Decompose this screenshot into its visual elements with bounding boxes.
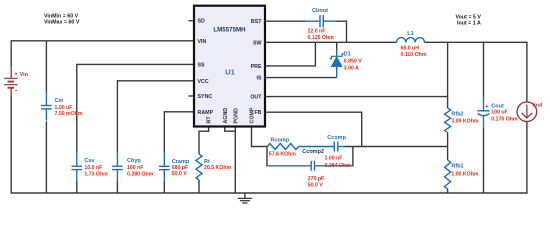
svg-text:VinMax = 60 V: VinMax = 60 V [44, 20, 80, 26]
svg-text:+: + [14, 72, 18, 78]
wire Rt bottom [198, 180, 200, 193]
svg-text:50.0 V: 50.0 V [308, 182, 324, 188]
value L1 [401, 46, 427, 58]
wire AGND pin path [224, 127, 236, 132]
svg-text:270 pF: 270 pF [308, 176, 324, 182]
text Vout/Iout annotation [456, 14, 482, 26]
svg-text:57.6 KOhm: 57.6 KOhm [269, 152, 296, 158]
value Rfb2 [451, 118, 478, 124]
label Ccomp2 [302, 149, 324, 155]
svg-text:RT: RT [207, 116, 213, 124]
wire SYNC stub [189, 95, 195, 97]
label Cramp [172, 159, 190, 165]
label Iout [533, 103, 543, 109]
wire COMP row left [251, 146, 267, 148]
text U1 part number [213, 27, 246, 34]
svg-text:COMP: COMP [250, 107, 256, 123]
wire output rail [425, 41, 528, 43]
svg-text:7.50 mOhm: 7.50 mOhm [55, 111, 83, 117]
op-amp U1 LM5575MH body [194, 6, 265, 127]
value Ccomp [325, 156, 352, 169]
svg-text:3.00 A: 3.00 A [344, 66, 359, 72]
wire battery column top [10, 40, 12, 66]
capacitor Cramp [159, 152, 170, 181]
svg-text:SYNC: SYNC [198, 94, 213, 100]
value Rt [204, 165, 231, 171]
label Vin with polarity [14, 72, 28, 95]
svg-text:100 uF: 100 uF [491, 110, 507, 116]
wire Rfb mid [447, 133, 449, 160]
svg-text:0.125 Ohm: 0.125 Ohm [308, 35, 335, 41]
capacitor Cbyp [112, 152, 123, 181]
wire Cin column [45, 41, 47, 193]
svg-text:IS: IS [256, 76, 261, 82]
svg-text:Ccomp: Ccomp [327, 135, 346, 141]
svg-text:50.0 V: 50.0 V [172, 171, 188, 177]
svg-text:1.00 nF: 1.00 nF [325, 156, 343, 162]
wire Cout column [483, 42, 485, 193]
svg-text:Rfb2: Rfb2 [451, 111, 463, 117]
svg-text:Vout = 5 V: Vout = 5 V [456, 14, 482, 20]
label Rcomp [271, 137, 290, 143]
wire Ccomp2 row [266, 165, 353, 167]
ground symbol [238, 193, 252, 203]
svg-text:Iout: Iout [533, 103, 543, 109]
svg-text:PRE: PRE [251, 64, 262, 70]
wire IS row [265, 77, 337, 79]
svg-text:Rfb1: Rfb1 [451, 164, 463, 170]
svg-text:PGND: PGND [233, 108, 239, 123]
svg-text:Vin: Vin [20, 72, 29, 78]
wire Cboot drop to SW [346, 21, 348, 43]
value Cin [55, 105, 83, 117]
svg-text:Cramp: Cramp [172, 159, 190, 165]
wire VIN rail [11, 40, 194, 42]
label Ccomp [327, 135, 346, 141]
svg-text:SD: SD [198, 19, 206, 25]
wire FB row [265, 111, 362, 113]
diode D1 (schottky) [330, 42, 344, 77]
wire PRE path [265, 42, 315, 66]
capacitor Ccomp2 [311, 161, 314, 171]
svg-text:0.280 Ohm: 0.280 Ohm [127, 171, 154, 177]
svg-text:20.5 KOhm: 20.5 KOhm [204, 165, 231, 171]
svg-text:Cin: Cin [55, 98, 65, 104]
wire SW rail [265, 41, 397, 43]
svg-text:VinMin = 60 V: VinMin = 60 V [44, 13, 79, 19]
label L1 [407, 31, 413, 37]
svg-text:1.73 Ohm: 1.73 Ohm [84, 171, 108, 177]
svg-text:D1: D1 [344, 51, 351, 57]
wire battery column bottom [10, 97, 12, 194]
wire bottom ground bus [11, 192, 528, 194]
text VinMin annotation [44, 13, 80, 25]
svg-text:Css: Css [84, 158, 94, 164]
value Cramp [172, 165, 188, 177]
svg-text:0.850 V: 0.850 V [344, 59, 362, 65]
wire Ccomp2 loop right [352, 147, 354, 166]
text U1 refdes [225, 67, 235, 76]
svg-text:Rcomp: Rcomp [271, 137, 290, 143]
label Rfb1 [451, 164, 463, 170]
svg-text:AGND: AGND [223, 108, 229, 124]
svg-text:SS: SS [198, 62, 206, 68]
svg-text:100 nF: 100 nF [127, 165, 143, 171]
label Css [84, 158, 94, 164]
value Cbyp [127, 165, 154, 177]
label Rt [204, 159, 210, 165]
svg-text:3.09 KOhm: 3.09 KOhm [451, 118, 478, 124]
wire Ccomp to FB node [339, 146, 448, 148]
resistor Rfb2 [445, 108, 451, 133]
svg-text:RAMP: RAMP [198, 110, 214, 116]
label Cbyp [127, 158, 141, 164]
wire Ccomp2 loop left [266, 147, 268, 166]
wire SD stub [189, 20, 195, 22]
wire Iout column [526, 42, 528, 193]
wire RAMP row [164, 111, 194, 113]
pin labels right (BST SW PRE IS OUT FB) [250, 19, 262, 116]
svg-text:1.00 KOhm: 1.00 KOhm [451, 172, 478, 178]
value Rfb1 [451, 172, 478, 178]
svg-text:U1: U1 [225, 67, 235, 76]
wire BST row [265, 20, 347, 22]
svg-text:L1: L1 [407, 31, 413, 37]
capacitor Cin [41, 91, 52, 120]
svg-text:Iout = 1 A: Iout = 1 A [457, 21, 481, 27]
capacitor Cboot [320, 15, 323, 28]
wire Rfb bottom [447, 189, 449, 193]
wire COMP drop [251, 127, 253, 147]
capacitor Cout (polarized) [477, 111, 489, 116]
svg-text:VCC: VCC [198, 79, 209, 85]
wire Cramp column [163, 111, 165, 193]
capacitor Css [72, 152, 83, 181]
svg-text:0.110 Ohm: 0.110 Ohm [401, 52, 427, 58]
label Rfb2 [451, 111, 463, 117]
svg-text:22.0 nF: 22.0 nF [308, 28, 326, 34]
wire SS row [77, 63, 194, 65]
current source Iout [517, 102, 537, 122]
resistor Rfb1 [445, 160, 451, 189]
svg-text:0.170 Ohm: 0.170 Ohm [491, 116, 518, 122]
value Cout [491, 110, 518, 123]
wire Rfb column top [447, 42, 449, 108]
value Css [84, 165, 108, 177]
wire PGND column [234, 127, 236, 194]
voltage source Vin (battery) [4, 66, 18, 97]
svg-text:10.0 nF: 10.0 nF [84, 165, 102, 171]
svg-text:OUT: OUT [250, 95, 262, 101]
value D1 [344, 59, 362, 72]
label D1 [344, 51, 351, 57]
svg-text:Cbyp: Cbyp [127, 158, 141, 164]
svg-text:LM5575MH: LM5575MH [213, 27, 246, 34]
svg-text:+: + [485, 104, 488, 110]
wire FB drop [361, 112, 363, 147]
svg-text:Cout: Cout [491, 103, 504, 109]
pin labels bottom (RT AGND PGND COMP) [207, 107, 256, 123]
pin labels left (SD VIN SS VCC SYNC RAMP) [198, 19, 214, 116]
svg-text:SW: SW [253, 40, 262, 46]
value Rcomp [269, 152, 296, 158]
label Cboot [312, 8, 328, 14]
svg-text:BST: BST [251, 19, 262, 25]
resistor Rt [196, 154, 202, 180]
wire OUT row [265, 96, 448, 98]
label Cout [485, 103, 504, 109]
value Cboot [308, 28, 335, 40]
svg-text:Cboot: Cboot [312, 8, 328, 14]
svg-text:Ccomp2: Ccomp2 [302, 149, 324, 155]
label Cin [55, 98, 65, 104]
resistor Rcomp [267, 144, 298, 150]
wire Rcomp to Ccomp [299, 146, 334, 148]
value Ccomp2 [308, 176, 324, 188]
wire Cbyp column [116, 80, 118, 193]
wire RT pin path [199, 127, 209, 155]
wire VCC row [117, 80, 194, 82]
inductor L1 [397, 38, 425, 43]
wire Css column [76, 64, 78, 193]
capacitor Ccomp [334, 142, 338, 152]
svg-text:FB: FB [254, 110, 261, 116]
svg-text:68.0 uH: 68.0 uH [401, 46, 420, 52]
svg-text:VIN: VIN [198, 39, 207, 45]
svg-text:Rt: Rt [204, 159, 210, 165]
